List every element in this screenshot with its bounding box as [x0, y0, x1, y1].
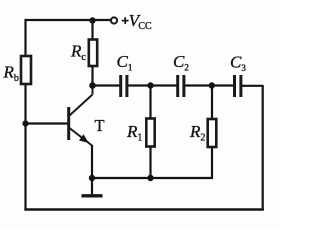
svg-text:Rc: Rc: [70, 42, 86, 64]
wire: C2 to C3 segment: [185, 84, 234, 86]
node: collector junction dot: [89, 82, 96, 89]
wire: base wire: [26, 122, 69, 124]
svg-text:T: T: [95, 116, 105, 135]
capacitor C3 plates: [235, 75, 241, 97]
node: Vcc junction dot: [89, 17, 95, 23]
svg-text:C2: C2: [173, 52, 189, 73]
wire: right vertical feedback branch: [262, 86, 264, 211]
wire: collector node to C1: [93, 84, 120, 86]
wire: bottom rail: [24, 208, 263, 210]
svg-text:R2: R2: [189, 122, 205, 144]
wire: R1 bottom connection: [149, 146, 151, 178]
wire: R1 top connection: [149, 86, 151, 120]
resistor Rc: [89, 40, 97, 67]
wire: ground stem: [91, 178, 93, 195]
wire: emitter rail to R1/R2 bottoms: [92, 177, 213, 179]
wire: emitter vertical: [91, 145, 93, 178]
resistor R1: [146, 119, 154, 147]
terminal: +Vcc open circle: [111, 17, 117, 23]
svg-text:C1: C1: [117, 52, 133, 73]
node: C1-C2-R1 junction dot: [147, 82, 153, 88]
resistor R2: [208, 119, 217, 147]
label +Vcc: [122, 17, 129, 24]
ground: [82, 194, 103, 197]
transistor T (NPN): [69, 84, 93, 146]
resistor Rb: [21, 56, 31, 84]
node: emitter junction dot: [89, 175, 95, 181]
node: R1 bottom junction dot: [147, 175, 153, 181]
svg-text:R1: R1: [126, 122, 142, 144]
wire: C1 to C2 segment: [128, 84, 177, 86]
svg-text:C3: C3: [230, 53, 246, 74]
svg-text:VCC: VCC: [129, 11, 152, 32]
wire: top rail from left branch to Vcc terminal: [25, 19, 111, 21]
node: base junction dot: [22, 120, 28, 126]
wire: Rc to collector node: [91, 66, 93, 87]
node: C2-C3-R2 junction dot: [209, 82, 215, 88]
wire: C3 output to right branch: [242, 85, 264, 87]
wire: R2 bottom connection: [211, 147, 213, 180]
capacitor C1 plates: [121, 75, 127, 97]
svg-text:Rb: Rb: [3, 63, 19, 85]
capacitor C2 plates: [178, 75, 184, 97]
wire: left vertical branch (Rb / feedback path): [24, 19, 26, 211]
transistor emitter arrow: [79, 134, 89, 143]
wire: Rc branch from top rail: [91, 20, 93, 40]
wire: R2 top connection: [211, 86, 213, 121]
